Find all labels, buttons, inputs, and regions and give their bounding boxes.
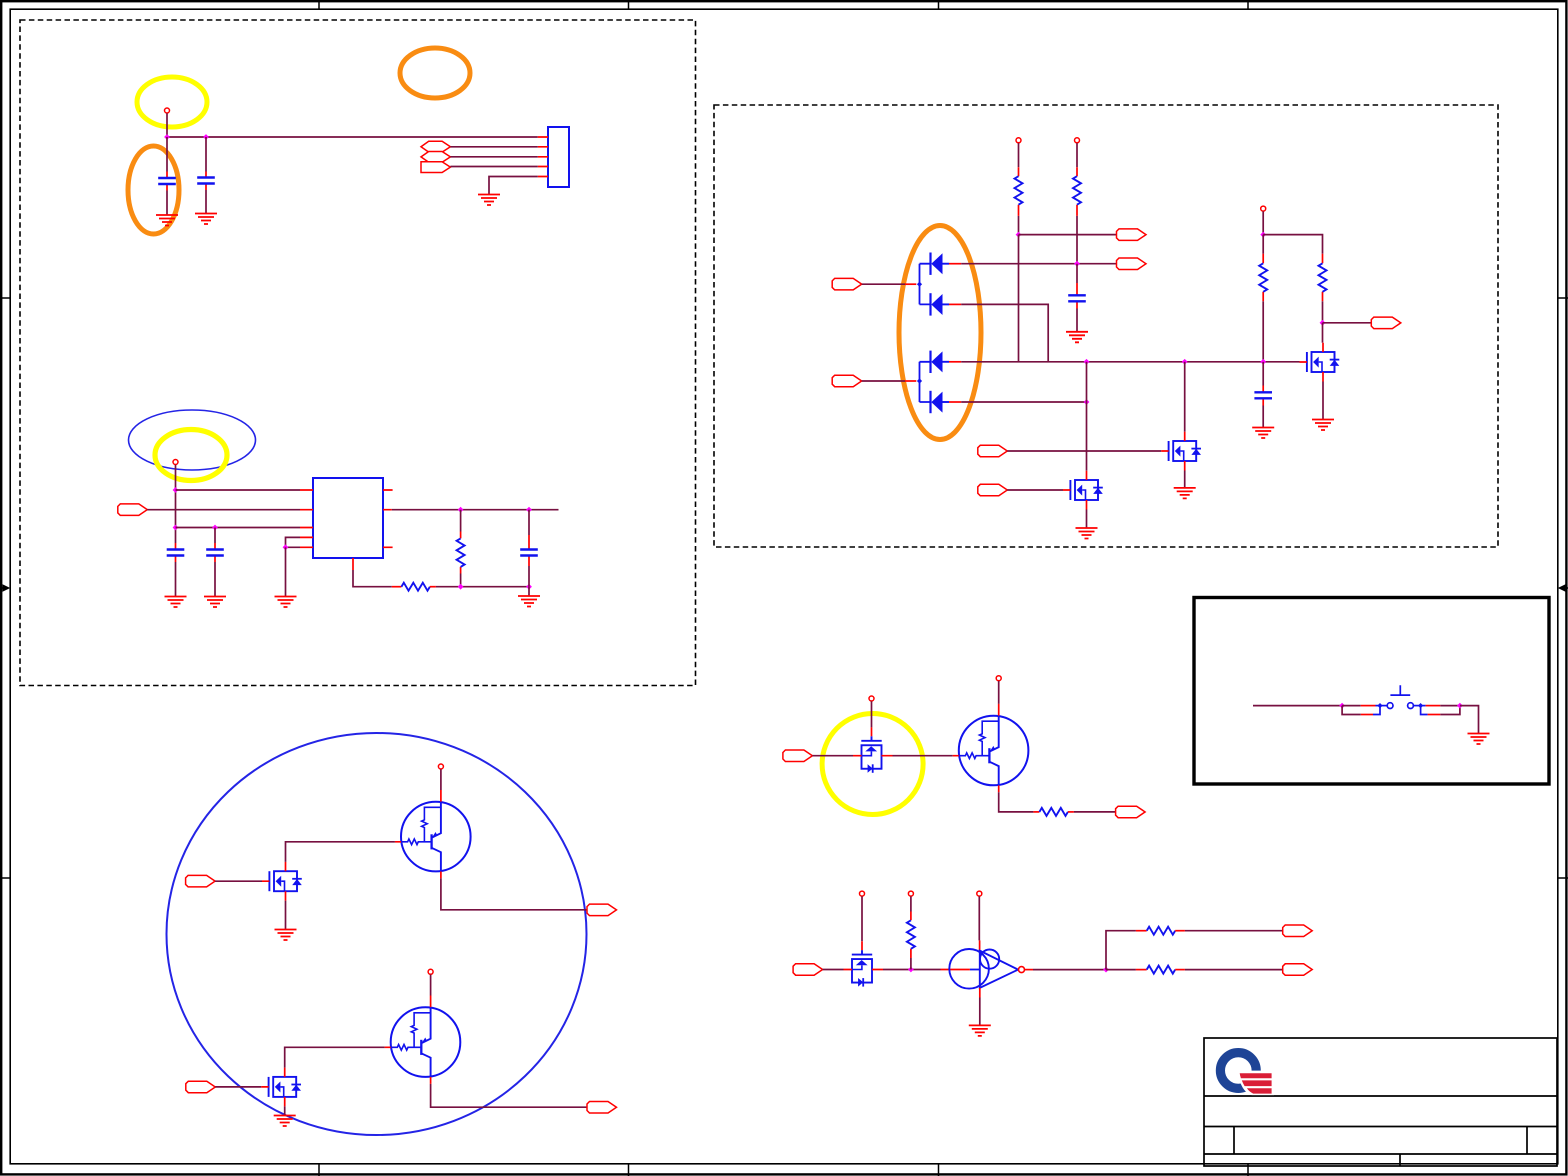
- highlight circle blue big: [167, 733, 587, 1135]
- net tag C out2: [1117, 258, 1147, 270]
- junction B1: [173, 487, 179, 493]
- wire pwr to T1: [440, 769, 442, 790]
- wire Q3 source to ground: [1322, 382, 1324, 420]
- connector J1 pin stubs: [538, 137, 548, 177]
- wire U1 adj bottom: [353, 570, 392, 587]
- wire buffer gnd: [979, 988, 981, 1025]
- wire B pin1: [176, 489, 301, 491]
- wire pwr to R4: [1263, 235, 1322, 254]
- net tag T1 out: [587, 904, 617, 916]
- junction C7b: [1084, 359, 1090, 365]
- switch left loop: [1342, 706, 1380, 715]
- power pin T2: [428, 969, 433, 974]
- wire M2 source: [284, 1106, 286, 1115]
- ground C4: [204, 597, 226, 608]
- net tag C out3: [1371, 317, 1401, 329]
- net tag M3 in: [783, 750, 813, 762]
- wire main bus y=361.8: [961, 361, 1299, 363]
- net tag Q1 gate: [978, 484, 1008, 496]
- junction B8: [526, 584, 532, 590]
- net tag T2 out: [587, 1102, 617, 1114]
- power pin R1: [1016, 138, 1021, 143]
- transistor Q2 mosfet: [1161, 432, 1201, 471]
- ground Q2: [1174, 488, 1196, 499]
- wire Q1 drain rail: [1086, 362, 1088, 471]
- net tag F out1: [1283, 925, 1313, 937]
- resistor R5 series: [1033, 808, 1115, 816]
- wire M2 drain to T2 base: [285, 1047, 385, 1067]
- wire Q2 source: [1184, 471, 1186, 488]
- frame center arrow left: [0, 584, 10, 592]
- wire VCC rail B: [175, 465, 177, 543]
- net hexagon H1: [421, 141, 450, 152]
- resistor R B (adj): [392, 583, 529, 591]
- buffer output bubble: [1019, 967, 1025, 973]
- switch left pin: [1342, 705, 1387, 707]
- net tag B in: [118, 504, 148, 516]
- resistor R8: [1106, 966, 1283, 974]
- net tag E out: [1116, 806, 1146, 818]
- wire T1 emitter out: [441, 878, 587, 909]
- wire pwr to T2: [430, 975, 432, 996]
- net tag C out1: [1117, 229, 1147, 241]
- net tag F out2: [1283, 964, 1313, 976]
- ground M2: [274, 1116, 296, 1127]
- dashed region box 2: [714, 105, 1498, 547]
- resistor R7: [1136, 927, 1283, 935]
- resistor R4: [1319, 254, 1327, 323]
- diode bus 1: [920, 264, 931, 305]
- capacitor C1: [158, 137, 176, 215]
- capacitor C3: [167, 543, 185, 597]
- diode D3: [931, 351, 962, 373]
- diode D2: [931, 293, 962, 315]
- junction F1: [908, 967, 914, 973]
- highlight ellipse orange around C1: [128, 146, 179, 234]
- junction B3: [212, 525, 218, 531]
- junction blue G left: [1377, 703, 1382, 708]
- wire B pin3: [176, 527, 301, 529]
- wire T1 to J1: [450, 166, 537, 168]
- ground C5: [518, 596, 540, 607]
- resistor R6 pullup: [907, 896, 915, 969]
- capacitor C4: [206, 528, 224, 597]
- wire R4 out: [1323, 322, 1372, 324]
- junction B4: [283, 544, 289, 550]
- diode D4: [931, 391, 962, 413]
- mosfet M4: [844, 941, 884, 986]
- ground Q3: [1312, 420, 1334, 431]
- highlight circle yellow E: [822, 714, 923, 815]
- power pin T1: [438, 764, 443, 769]
- wire R1 rail down: [1018, 235, 1020, 362]
- junction C6b: [1182, 359, 1188, 365]
- capacitor C7: [1254, 362, 1272, 428]
- wire pwr right down: [1262, 211, 1264, 234]
- frame zone ticks right: [1558, 298, 1568, 878]
- ground SW1: [1468, 734, 1490, 745]
- wire F3 down: [978, 896, 980, 950]
- switch SW1: [1387, 685, 1413, 708]
- wire Q2 gate: [1007, 450, 1161, 452]
- wire Q1 source: [1086, 510, 1088, 528]
- frame zone ticks top: [319, 0, 1248, 9]
- power pin VCC A: [165, 108, 170, 113]
- resistor R1: [1015, 143, 1023, 235]
- highlight ellipse yellow A: [137, 77, 207, 127]
- wire T3 collector out: [999, 792, 1034, 812]
- transistor T1 digital pnp: [395, 790, 471, 878]
- highlight ellipse orange diodes: [899, 226, 981, 440]
- junction G2: [1457, 703, 1463, 709]
- junction F2: [1103, 967, 1109, 973]
- wire U1 pin4-pin5 loop: [286, 537, 301, 547]
- wire D1 out: [961, 263, 1116, 265]
- wire M1 drain to T1 base: [286, 842, 395, 862]
- wire M3 in: [812, 755, 853, 757]
- junction B5: [458, 507, 464, 513]
- net tag C in1: [832, 278, 862, 290]
- ground J1: [478, 195, 500, 206]
- junction C3: [1260, 232, 1266, 238]
- U1 left pin stubs: [300, 490, 313, 547]
- junction C5: [1260, 359, 1266, 365]
- highlight ellipse orange top: [400, 48, 470, 98]
- power pin F2: [908, 891, 913, 896]
- mosfet M3: [853, 727, 893, 772]
- wire D2 out: [961, 304, 1048, 361]
- wire in1: [862, 283, 917, 285]
- buffer U2: [949, 949, 1018, 989]
- wire F1 down: [861, 896, 863, 941]
- regulator U1: [313, 478, 383, 558]
- net tag M1 gate: [186, 875, 216, 887]
- mosfet M2: [261, 1068, 301, 1107]
- wire Q1 gate: [1007, 489, 1063, 491]
- transistor T3 digital pnp: [953, 704, 1029, 792]
- power pin T3: [996, 676, 1001, 681]
- highlight ellipse blue B: [129, 410, 256, 470]
- net tag C in2: [832, 375, 862, 387]
- wire loop to ground: [285, 547, 287, 596]
- connector J1: [548, 127, 569, 187]
- junction C8: [1084, 399, 1090, 405]
- wire upper branch: [1106, 931, 1136, 970]
- wire switch left: [1253, 705, 1342, 707]
- frame center arrow right: [1558, 584, 1568, 592]
- wire B pin2: [147, 509, 300, 511]
- junction B2: [173, 525, 179, 531]
- net hexagon H2: [421, 152, 450, 163]
- logo ring: [1220, 1053, 1274, 1096]
- power pin F3: [977, 891, 982, 896]
- mosfet M1: [262, 862, 302, 901]
- junction C1: [1016, 232, 1022, 238]
- resistor R2: [1073, 143, 1081, 264]
- wire VCC down: [166, 113, 168, 137]
- junction C4: [1320, 320, 1326, 326]
- wire Q2 drain rail: [1184, 362, 1186, 432]
- wire J1 pin5 to ground: [489, 177, 538, 195]
- ground U1: [275, 597, 297, 608]
- U1 right pin stubs: [383, 490, 393, 547]
- ground C1: [156, 215, 178, 226]
- ground C2: [195, 214, 217, 225]
- power pin M3: [869, 696, 874, 701]
- power pin VCC B: [173, 460, 178, 465]
- junction A1: [164, 134, 170, 140]
- dashed region box 1: [20, 20, 696, 686]
- junction A2: [203, 134, 209, 140]
- transistor Q3 mosfet: [1300, 343, 1340, 382]
- ground U2: [969, 1025, 991, 1036]
- solid region box: [1194, 598, 1549, 785]
- ground C6: [1066, 332, 1088, 343]
- wire pwr to M3 gate: [871, 701, 873, 727]
- frame zone ticks bottom: [319, 1164, 1248, 1176]
- switch right pin: [1413, 705, 1460, 707]
- diode bus 2: [920, 362, 931, 402]
- frame zone ticks left: [0, 298, 10, 878]
- capacitor C6: [1068, 264, 1086, 332]
- wire D4 out: [961, 401, 1086, 403]
- net tag M2 gate: [186, 1081, 216, 1093]
- power pin R2: [1075, 138, 1080, 143]
- wire C5 to ground: [528, 587, 530, 596]
- transistor T2 digital pnp: [385, 996, 461, 1084]
- wire M1 source: [285, 901, 287, 930]
- wire M4 to buffer: [883, 969, 980, 971]
- junction G1: [1339, 703, 1345, 709]
- junction C2: [1074, 261, 1080, 267]
- wire H1 to J1: [450, 146, 537, 148]
- wire R4 to Q3: [1322, 323, 1324, 343]
- wire in2: [862, 380, 917, 382]
- wire buffer out: [1025, 969, 1106, 971]
- junction B7: [458, 584, 464, 590]
- net tag T1: [421, 162, 450, 173]
- net tag Q2 gate: [978, 445, 1008, 457]
- wire M1 gate: [215, 880, 262, 882]
- ground M1: [275, 930, 297, 941]
- wire R1 out: [1019, 234, 1117, 236]
- switch right loop: [1421, 706, 1460, 715]
- transistor Q1 mosfet: [1063, 471, 1103, 510]
- highlight ellipse yellow B: [155, 430, 227, 481]
- wire F in: [823, 969, 844, 971]
- wire T2 emitter out: [431, 1084, 587, 1107]
- title block table: [1204, 1038, 1557, 1166]
- logo stripes: [1240, 1073, 1272, 1093]
- ground C7: [1252, 428, 1274, 439]
- wire pwr to T3: [998, 681, 1000, 704]
- power pin right: [1261, 206, 1266, 211]
- net tag F in: [793, 964, 823, 976]
- capacitor C2: [197, 137, 215, 214]
- wire U1 output: [392, 509, 559, 511]
- diode D1: [931, 253, 962, 275]
- ground Q1: [1076, 528, 1098, 539]
- wire M2 gate: [215, 1086, 261, 1088]
- resistor R A (feedback): [457, 510, 465, 587]
- wire main rail y=137: [167, 136, 538, 138]
- U1 bottom pin stub: [352, 558, 354, 570]
- resistor R3: [1259, 235, 1267, 362]
- junction B6: [526, 507, 532, 513]
- wire switch to ground: [1460, 706, 1479, 734]
- wire H2 to J1: [450, 156, 537, 158]
- junction blue G right: [1418, 703, 1423, 708]
- junction blue bus2: [917, 378, 922, 383]
- junction blue bus1: [917, 282, 922, 287]
- power pin F1: [860, 891, 865, 896]
- ground C3: [165, 597, 187, 608]
- wire M3 to T3 base: [893, 755, 953, 757]
- capacitor C5: [520, 510, 538, 587]
